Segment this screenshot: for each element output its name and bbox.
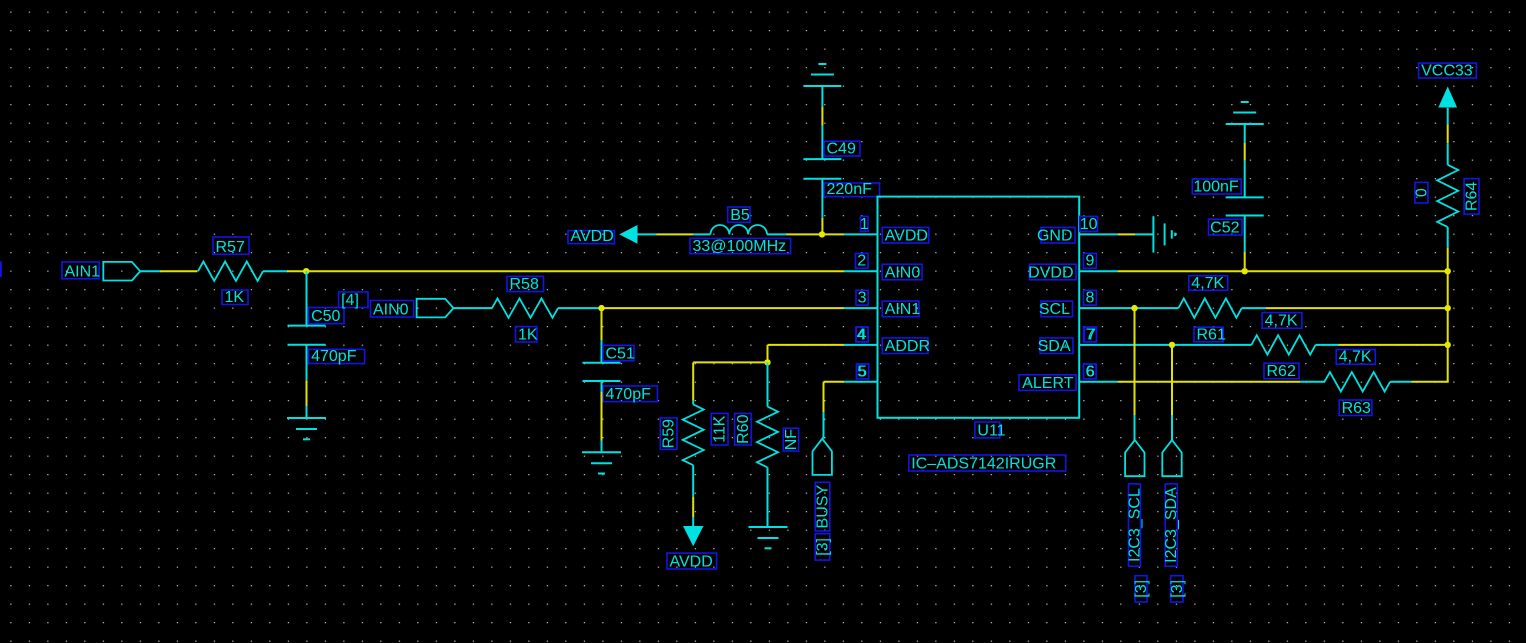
R63 right lead (cyan) xyxy=(1390,381,1412,383)
svg-text:VCC33: VCC33 xyxy=(1421,63,1473,80)
pin number 2 xyxy=(856,253,869,270)
pin name SDA xyxy=(1038,338,1073,355)
pin name GND xyxy=(1037,227,1075,244)
pull-up rail vertical (yellow) xyxy=(1447,271,1449,382)
capacitor C52 xyxy=(1226,197,1264,215)
C52 lower wire (yellow) xyxy=(1244,252,1246,268)
power port label VCC33 xyxy=(1419,63,1477,80)
svg-text:C51: C51 xyxy=(606,345,635,362)
C49 upper wire (yellow) xyxy=(821,107,823,126)
C49 lower wire (yellow) xyxy=(821,218,823,232)
wire SDA down to port (yellow) xyxy=(1171,345,1173,415)
port AIN1 (points right) xyxy=(103,262,140,281)
pin number 5 xyxy=(856,363,868,380)
pin number 5 xyxy=(857,363,869,380)
pin 9 stub (cyan) xyxy=(1079,270,1118,272)
wire corner down to junction (yellow) xyxy=(767,345,769,363)
wire R57 junction to IC pin 2 (yellow) xyxy=(287,270,844,272)
I2C3_SDA port lead (cyan) xyxy=(1171,415,1173,440)
pin number 8 xyxy=(1084,290,1097,307)
pin number 7 xyxy=(1084,326,1097,343)
port BUSY (points up) xyxy=(813,439,832,475)
svg-text:AVDD: AVDD xyxy=(885,228,928,245)
IC U11 body (ADS7142IRUGR) xyxy=(878,197,1080,418)
pin number 4 xyxy=(856,326,868,343)
resistor R63 xyxy=(1324,372,1390,391)
C51 lower lead (cyan) xyxy=(601,381,603,392)
ground (R60) xyxy=(749,527,788,548)
port AIN0 (points right) xyxy=(417,299,454,318)
pin number 6 xyxy=(1084,363,1097,380)
value 1K (R58) xyxy=(516,327,538,344)
value 4,7K (R63) xyxy=(1336,349,1375,366)
port label AIN1 xyxy=(62,262,100,280)
wire into AVDD arrow (cyan) xyxy=(692,517,694,527)
I2C3_SCL port lead (cyan) xyxy=(1134,415,1136,440)
wire R58 to junction (cyan) xyxy=(558,307,602,309)
value 470pF (C50) xyxy=(309,348,365,365)
pin number 7 xyxy=(1085,326,1097,343)
pin 10 wire (yellow) xyxy=(1118,233,1135,235)
junction node ADDR divider xyxy=(764,359,770,365)
designator R64 (rotated) xyxy=(1464,179,1481,215)
designator R62 xyxy=(1264,363,1299,380)
pin name DVDD xyxy=(1028,264,1076,281)
svg-text:1K: 1K xyxy=(518,327,538,344)
junction node rail / R62 xyxy=(1445,342,1451,348)
designator C51 xyxy=(603,345,635,362)
svg-text:ADDR: ADDR xyxy=(885,338,930,355)
svg-text:BUSY: BUSY xyxy=(815,485,832,529)
svg-text:7: 7 xyxy=(1087,326,1096,343)
port I2C3_SDA (points up) xyxy=(1162,440,1181,476)
resistor R64 xyxy=(1437,165,1458,227)
ground (C49, inverted) xyxy=(803,64,841,86)
svg-text:AIN1: AIN1 xyxy=(885,301,921,318)
value 4,7K (R61) xyxy=(1189,275,1228,292)
pin name SCL xyxy=(1039,301,1073,318)
svg-text:[3]: [3] xyxy=(1169,580,1186,598)
svg-text:DVDD: DVDD xyxy=(1028,264,1073,281)
svg-text:R59: R59 xyxy=(661,419,678,448)
ground (pin 10, rotated) xyxy=(1153,216,1175,252)
pin 4 stub (cyan) xyxy=(844,344,878,346)
power port label AVDD (bottom) xyxy=(667,553,717,570)
B5 right lead (cyan) xyxy=(767,233,787,235)
designator R63 xyxy=(1339,400,1372,417)
pin 2 stub (cyan) xyxy=(844,270,878,272)
svg-text:GND: GND xyxy=(1037,228,1073,245)
sheet ref [3] (BUSY, rotated) xyxy=(815,534,832,560)
svg-text:I2C3_SDA: I2C3_SDA xyxy=(1163,487,1180,563)
svg-text:5: 5 xyxy=(857,363,866,380)
R60 bottom lead (cyan) xyxy=(767,467,769,527)
wire R57 to junction (cyan) xyxy=(263,270,288,272)
wire port AIN0 to R58 (cyan) xyxy=(454,307,493,309)
C49 lead to plate (cyan) xyxy=(821,126,823,160)
cut-off label box edge at left margin xyxy=(0,261,2,277)
wire B5 to IC pin 1 (yellow) xyxy=(787,233,845,235)
designator C50 xyxy=(309,308,344,326)
ground (C52, inverted) xyxy=(1226,102,1264,124)
junction node AIN1 net / C51 xyxy=(598,305,604,311)
designator R61 xyxy=(1194,326,1226,343)
R64 top lead (cyan) xyxy=(1447,108,1449,125)
pin number 10 xyxy=(1080,216,1098,233)
svg-text:R58: R58 xyxy=(510,276,539,293)
R60 top lead (cyan) xyxy=(767,362,769,406)
wire SCL down to port (yellow) xyxy=(1134,308,1136,415)
svg-text:I2C3_SCL: I2C3_SCL xyxy=(1127,488,1144,562)
wire down to BUSY port (yellow) xyxy=(823,382,825,412)
value NF (R60, rotated) xyxy=(783,428,800,451)
R63 left lead (cyan) xyxy=(1300,381,1324,383)
power arrow AVDD (points left) xyxy=(619,225,637,244)
svg-text:470pF: 470pF xyxy=(311,348,357,365)
wire R62 to pull-up rail (yellow) xyxy=(1338,344,1447,346)
power arrow VCC33 (points up) xyxy=(1438,87,1457,108)
value 100nF (C52) xyxy=(1192,179,1241,196)
pin number 9 xyxy=(1084,253,1097,270)
R61 right lead (cyan) xyxy=(1242,307,1267,309)
svg-text:4,7K: 4,7K xyxy=(1191,275,1224,292)
sheet ref [3] (SCL, rotated) xyxy=(1133,576,1150,602)
junction node AIN0 net / C50 xyxy=(303,268,309,274)
R64 lead (cyan) xyxy=(1447,143,1449,165)
R59 bottom wire (yellow) xyxy=(692,497,694,517)
pin 6 stub (cyan) xyxy=(1079,381,1118,383)
svg-text:AVDD: AVDD xyxy=(670,554,713,571)
designator B5 xyxy=(728,207,750,224)
svg-text:SDA: SDA xyxy=(1038,338,1071,355)
wire SDA (pin 7) to R62 (cyan) xyxy=(1079,344,1251,346)
value 4,7K (R62) xyxy=(1262,313,1302,330)
R64 bottom lead (cyan) xyxy=(1447,227,1449,248)
R59 top wire (yellow) xyxy=(692,362,694,400)
designator R57 xyxy=(213,237,249,256)
svg-text:0: 0 xyxy=(1413,188,1430,197)
svg-text:33@100MHz: 33@100MHz xyxy=(693,238,787,255)
sheet ref [3] (SDA, rotated) xyxy=(1169,576,1186,602)
svg-text:9: 9 xyxy=(1085,253,1094,270)
ferrite bead B5 xyxy=(711,225,768,234)
svg-text:4,7K: 4,7K xyxy=(1339,349,1372,366)
port label I2C3_SCL (rotated) xyxy=(1127,484,1144,566)
designator R58 xyxy=(507,276,544,293)
BUSY port lead (cyan) xyxy=(823,412,825,439)
port label BUSY (rotated) xyxy=(815,482,832,531)
C51 lower wire (yellow) xyxy=(601,392,603,441)
svg-text:R60: R60 xyxy=(735,414,752,443)
svg-text:4: 4 xyxy=(857,326,866,343)
wire port AIN1 to R57 (cyan) xyxy=(140,270,161,272)
capacitor C51 xyxy=(583,363,621,381)
resistor R60 xyxy=(757,407,778,468)
B5 left lead (cyan) xyxy=(693,233,711,235)
C50 lower wire (yellow) xyxy=(306,381,308,406)
R62 right lead (cyan) xyxy=(1316,344,1339,346)
svg-text:AIN0: AIN0 xyxy=(373,302,409,319)
svg-text:U11: U11 xyxy=(977,422,1005,439)
pin number 3 xyxy=(856,290,868,307)
sheet ref [4] xyxy=(339,292,368,309)
junction node rail / R61 xyxy=(1445,305,1451,311)
svg-text:11K: 11K xyxy=(712,415,729,443)
pin 1 stub (cyan) xyxy=(844,233,878,235)
svg-text:B5: B5 xyxy=(730,207,750,224)
power arrow AVDD (points down) xyxy=(683,526,703,546)
wire SCL (pin 8) to R61 (cyan) xyxy=(1079,307,1178,309)
junction node AVDD / C49 xyxy=(819,231,825,237)
junction node SDA / I2C3_SDA xyxy=(1169,342,1175,348)
svg-text:IC–ADS7142IRUGR: IC–ADS7142IRUGR xyxy=(911,456,1056,473)
svg-text:10: 10 xyxy=(1080,216,1098,233)
resistor R59 xyxy=(683,404,704,465)
C51 wire to ground (cyan) xyxy=(601,441,603,453)
designator R59 (rotated) xyxy=(660,418,677,450)
svg-text:3: 3 xyxy=(858,290,867,307)
R59 bottom lead (cyan) xyxy=(692,465,694,497)
C52 lower lead (cyan) xyxy=(1244,216,1246,253)
wire AVDD arrow to B5 (cyan) xyxy=(637,233,657,235)
pin 5 stub (cyan) xyxy=(844,381,878,383)
value 1K (R57) xyxy=(222,289,248,306)
pin 10 ground lead (cyan) xyxy=(1135,233,1153,235)
port label I2C3_SDA (rotated) xyxy=(1163,484,1180,566)
svg-text:100nF: 100nF xyxy=(1193,179,1239,196)
wire junction to IC pin 3 (yellow) xyxy=(602,307,845,309)
wire ADDR (pin 4) to corner (yellow) xyxy=(768,344,845,346)
designator U11 xyxy=(975,422,1006,439)
designator R60 (rotated) xyxy=(735,413,752,445)
svg-text:[3]: [3] xyxy=(1133,580,1150,598)
pin name AVDD xyxy=(882,227,929,244)
wire R61 to pull-up rail (yellow) xyxy=(1266,307,1448,309)
svg-text:2: 2 xyxy=(857,253,866,270)
wire R63 to rail corner (yellow) xyxy=(1412,381,1449,383)
svg-text:6: 6 xyxy=(1086,363,1095,380)
svg-text:ALERT: ALERT xyxy=(1022,375,1074,392)
C52 upper wire (yellow) xyxy=(1244,143,1246,161)
wire BUSY (pin 5) horizontal (yellow) xyxy=(824,381,845,383)
svg-text:470pF: 470pF xyxy=(606,386,652,403)
designator C49 xyxy=(824,141,860,158)
resistor R62 xyxy=(1251,335,1315,354)
junction node DVDD / C52 xyxy=(1242,268,1248,274)
junction node SCL / I2C3_SCL xyxy=(1131,305,1137,311)
svg-text:1: 1 xyxy=(860,216,869,233)
pin name AIN1 xyxy=(882,301,920,318)
value 220nF (C49) xyxy=(824,181,880,198)
power port label AVDD xyxy=(568,228,615,245)
svg-text:R61: R61 xyxy=(1197,326,1226,343)
C50 lower lead (cyan) xyxy=(306,345,308,381)
svg-text:AIN0: AIN0 xyxy=(885,264,921,281)
junction node DVDD / R64 column xyxy=(1445,268,1451,274)
R59 top lead (cyan) xyxy=(692,401,694,405)
value 470pF (C51) xyxy=(603,386,657,403)
svg-text:R63: R63 xyxy=(1342,400,1371,417)
wire junction down to C50 (cyan) xyxy=(306,271,308,325)
pin name AIN0 xyxy=(882,264,922,281)
C52 lead to plate (cyan) xyxy=(1244,161,1246,198)
part name IC-ADS7142IRUGR xyxy=(909,455,1066,473)
svg-text:C49: C49 xyxy=(827,141,856,158)
svg-text:8: 8 xyxy=(1085,290,1094,307)
svg-text:[3]: [3] xyxy=(815,538,832,556)
svg-text:AVDD: AVDD xyxy=(571,228,614,245)
value 11K (R59, rotated) xyxy=(711,413,728,445)
pin number 6 xyxy=(1084,363,1097,380)
port label AIN0 xyxy=(371,301,414,319)
R64 bottom wire (yellow) xyxy=(1447,248,1449,272)
svg-text:1K: 1K xyxy=(225,289,245,306)
designator C52 xyxy=(1209,219,1243,236)
ground (C50) xyxy=(287,418,326,439)
C50 wire to ground (cyan) xyxy=(306,406,308,418)
svg-text:[4]: [4] xyxy=(341,292,359,309)
svg-text:AIN1: AIN1 xyxy=(65,263,101,280)
wire junction down to C51 (yellow) xyxy=(601,308,603,340)
capacitor C50 xyxy=(288,326,326,345)
pin 3 stub (cyan) xyxy=(844,307,878,309)
resistor R57 xyxy=(198,262,263,281)
C52 upper lead (cyan) xyxy=(1244,124,1246,143)
wire ALERT (yellow) xyxy=(1118,381,1300,383)
capacitor C49 xyxy=(803,159,841,179)
ground (C51) xyxy=(582,452,621,473)
pin number 4 xyxy=(856,326,868,343)
resistor R61 xyxy=(1179,298,1242,317)
R64 top wire (yellow) xyxy=(1447,125,1449,144)
svg-text:SCL: SCL xyxy=(1039,301,1070,318)
svg-text:R57: R57 xyxy=(216,239,245,256)
resistor R58 xyxy=(492,298,558,317)
value 0 (R64, rotated) xyxy=(1413,182,1430,203)
port I2C3_SCL (points up) xyxy=(1125,440,1144,476)
svg-text:220nF: 220nF xyxy=(827,181,873,198)
svg-text:R62: R62 xyxy=(1267,363,1296,380)
pin name ALERT xyxy=(1019,375,1076,392)
pin 10 stub (cyan) xyxy=(1079,233,1118,235)
C49 lower lead (cyan) xyxy=(821,179,823,218)
C49 upper lead (cyan) xyxy=(821,86,823,107)
svg-text:NF: NF xyxy=(783,429,800,451)
pin number 1 xyxy=(860,216,869,233)
pin name ADDR xyxy=(882,338,930,355)
wire (yellow) to B5 xyxy=(657,233,694,235)
svg-text:R64: R64 xyxy=(1464,182,1481,211)
C51 upper lead (cyan) xyxy=(601,340,603,363)
svg-text:C52: C52 xyxy=(1210,220,1239,237)
svg-text:C50: C50 xyxy=(311,308,340,325)
wire (yellow) into R57 xyxy=(160,270,198,272)
wire DVDD rail (yellow) xyxy=(1118,270,1448,272)
value 33@100MHz (B5) xyxy=(690,238,791,255)
svg-text:4,7K: 4,7K xyxy=(1265,313,1298,330)
wire junction to R59 column (yellow) xyxy=(693,361,767,363)
